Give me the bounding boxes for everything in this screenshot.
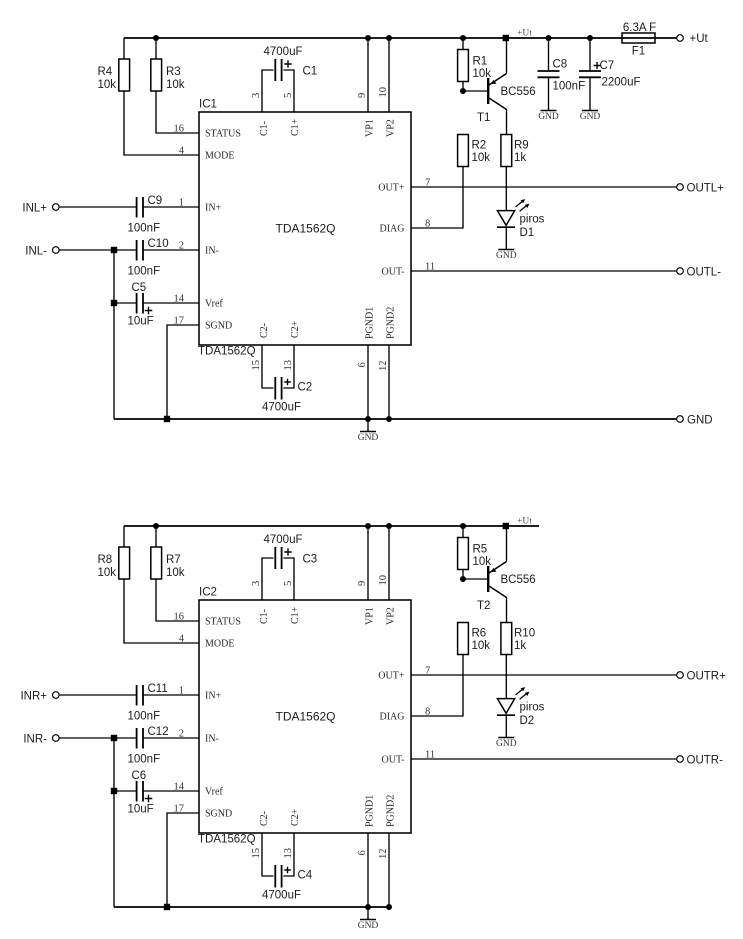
- svg-text:C4: C4: [298, 870, 313, 882]
- junction input/C5 branch: [111, 247, 117, 253]
- svg-text:10: 10: [378, 87, 389, 98]
- svg-text:MODE: MODE: [205, 638, 234, 649]
- svg-text:13: 13: [283, 360, 294, 371]
- svg-text:C10: C10: [148, 238, 169, 250]
- wire PGND1 pin 6 to ground rail: [367, 833, 369, 907]
- pin names IC1 top: [259, 121, 270, 136]
- junction rail/C8: [546, 35, 552, 41]
- terminal OUTR+: [411, 674, 677, 676]
- svg-text:17: 17: [174, 316, 185, 327]
- svg-text:C1-: C1-: [259, 121, 270, 136]
- wire collector of T2: [489, 586, 507, 598]
- svg-text:10k: 10k: [472, 152, 491, 164]
- op-amp IC IC1 TDA1562Q box: [199, 112, 411, 345]
- wire INL+ to C9: [59, 206, 136, 208]
- svg-text:C7: C7: [600, 60, 615, 72]
- svg-text:100nF: 100nF: [128, 754, 161, 766]
- junction PGND1/rail: [365, 904, 371, 910]
- wire ground rail left channel: [114, 418, 677, 420]
- svg-text:10k: 10k: [166, 567, 185, 579]
- svg-text:4700uF: 4700uF: [262, 402, 301, 414]
- svg-text:+Ut: +Ut: [517, 29, 532, 39]
- svg-text:STATUS: STATUS: [205, 616, 241, 627]
- svg-text:PGND1: PGND1: [365, 307, 376, 339]
- wire R8 to MODE pin 4: [124, 579, 199, 643]
- svg-text:15: 15: [251, 848, 262, 859]
- junction PGND1/rail: [365, 416, 371, 422]
- pin names IC2 top: [259, 609, 270, 624]
- pin numbers IC1 top: [251, 93, 262, 98]
- svg-text:100nF: 100nF: [553, 81, 586, 93]
- svg-text:PGND2: PGND2: [386, 307, 397, 339]
- svg-text:8: 8: [425, 707, 430, 718]
- pin numbers IC1 bottom: [251, 360, 262, 371]
- wire emitter of T2 to rail: [506, 526, 508, 562]
- svg-text:GND: GND: [358, 921, 379, 931]
- svg-text:10k: 10k: [98, 567, 117, 579]
- wire VP1 pin 9 to rail: [367, 526, 369, 600]
- ground: [367, 419, 369, 431]
- svg-text:Vref: Vref: [205, 298, 223, 309]
- svg-text:piros: piros: [520, 214, 545, 226]
- terminal +Ut: [677, 35, 684, 42]
- wire R10 to LED D2: [505, 655, 507, 699]
- svg-text:10uF: 10uF: [128, 316, 154, 328]
- svg-text:1k: 1k: [514, 152, 526, 164]
- resistor R1: [462, 38, 464, 50]
- svg-text:IN-: IN-: [205, 245, 219, 256]
- terminal INR+: [53, 692, 60, 699]
- svg-text:F1: F1: [632, 46, 645, 58]
- capacitor C3 4700uF pump: [262, 558, 274, 600]
- svg-text:GND: GND: [687, 415, 713, 427]
- svg-text:+Ut: +Ut: [690, 33, 709, 45]
- svg-text:C6: C6: [132, 770, 147, 782]
- wire SGND pin 17 to ground rail: [167, 813, 199, 907]
- resistor R8: [119, 547, 130, 579]
- svg-text:INR-: INR-: [23, 734, 47, 746]
- junction rail/C7: [587, 35, 593, 41]
- svg-text:Vref: Vref: [205, 786, 223, 797]
- svg-text:OUTR+: OUTR+: [687, 671, 727, 683]
- svg-text:10k: 10k: [166, 79, 185, 91]
- svg-text:4700uF: 4700uF: [263, 46, 302, 58]
- junction C5 tap: [111, 300, 117, 306]
- svg-text:TDA1562Q: TDA1562Q: [198, 346, 256, 358]
- svg-text:4700uF: 4700uF: [262, 890, 301, 902]
- svg-text:OUTL-: OUTL-: [687, 267, 722, 279]
- svg-text:14: 14: [174, 294, 185, 305]
- junction rail/VP1: [365, 35, 371, 41]
- svg-text:R6: R6: [472, 628, 487, 640]
- wire PGND1 pin 6 to ground rail: [367, 345, 369, 419]
- wire VP2 pin 10 to rail: [388, 38, 390, 112]
- junction rail/emitter T1: [503, 35, 509, 41]
- capacitor C10 100nF: [136, 240, 138, 261]
- terminal GND: [677, 416, 684, 423]
- wire ground rail right channel: [114, 906, 389, 908]
- svg-text:2200uF: 2200uF: [602, 77, 641, 89]
- svg-text:C1+: C1+: [290, 606, 301, 624]
- svg-text:5: 5: [283, 93, 294, 98]
- svg-text:10uF: 10uF: [128, 804, 154, 816]
- wire C10 to IN- pin 2: [143, 249, 199, 251]
- wire C5 to Vref pin 14: [143, 302, 199, 304]
- wire collector of T1: [489, 98, 507, 110]
- svg-text:4700uF: 4700uF: [263, 534, 302, 546]
- svg-text:5: 5: [283, 581, 294, 586]
- wire base node to T1: [463, 90, 487, 92]
- junction input/C6 branch: [111, 735, 117, 741]
- svg-text:GND: GND: [496, 251, 517, 261]
- svg-text:R4: R4: [98, 66, 113, 78]
- ground: [589, 98, 591, 110]
- capacitor C1 4700uF pump: [262, 70, 274, 112]
- svg-text:VP2: VP2: [386, 607, 397, 625]
- svg-text:C1: C1: [303, 66, 318, 78]
- svg-text:TDA1562Q: TDA1562Q: [275, 710, 335, 724]
- capacitor C4 4700uF pump: [262, 833, 274, 876]
- junction C6 tap: [111, 788, 117, 794]
- ground: [505, 237, 507, 249]
- transistor T1 BC556 PNP: [487, 78, 489, 104]
- wire rail to R3: [155, 38, 157, 59]
- svg-text:PGND2: PGND2: [386, 795, 397, 827]
- svg-text:C8: C8: [553, 59, 568, 71]
- svg-text:GND: GND: [538, 112, 559, 122]
- svg-text:1: 1: [179, 198, 184, 209]
- junction PGND2/rail: [386, 904, 392, 910]
- resistor R6: [458, 623, 469, 655]
- resistor R5: [462, 526, 464, 538]
- svg-text:3: 3: [251, 581, 262, 586]
- capacitor C7 2200uF: [589, 38, 591, 71]
- wire R4 to MODE pin 4: [124, 91, 199, 155]
- svg-text:VP1: VP1: [365, 119, 376, 137]
- wire rail corner down to R8: [123, 526, 125, 547]
- svg-text:C2-: C2-: [259, 323, 270, 338]
- resistor R4: [119, 59, 130, 91]
- svg-text:C2+: C2+: [290, 320, 301, 338]
- svg-text:2: 2: [179, 241, 184, 252]
- resistor R9: [501, 135, 512, 167]
- node base of T2: [460, 576, 466, 582]
- ground: [505, 725, 507, 737]
- capacitor C5 10uF: [114, 302, 136, 304]
- wire emitter of T1 to rail: [506, 38, 508, 74]
- wire +Ut rail right channel: [124, 525, 539, 527]
- junction SGND/ground rail: [164, 904, 170, 910]
- svg-text:9: 9: [357, 581, 368, 586]
- svg-text:OUT+: OUT+: [378, 670, 405, 681]
- svg-text:INR+: INR+: [20, 691, 47, 703]
- svg-text:17: 17: [174, 804, 185, 815]
- wire LED D2 cathode to ground: [505, 715, 507, 725]
- resistor R3: [151, 59, 162, 91]
- svg-text:6: 6: [357, 362, 368, 367]
- pin numbers IC2 top: [251, 581, 262, 586]
- LED arrows of D2: [516, 690, 527, 700]
- svg-text:BC556: BC556: [501, 574, 536, 586]
- svg-text:9: 9: [357, 93, 368, 98]
- wire base node to T2: [463, 578, 487, 580]
- svg-text:16: 16: [174, 124, 185, 135]
- junction rail/R1: [460, 35, 466, 41]
- svg-text:4: 4: [179, 634, 185, 645]
- wire LED D1 cathode to ground: [505, 227, 507, 237]
- node base of T1: [460, 88, 466, 94]
- svg-text:D1: D1: [520, 227, 535, 239]
- junction rail/R5: [460, 523, 466, 529]
- svg-text:C1+: C1+: [290, 118, 301, 136]
- svg-text:DIAG: DIAG: [380, 223, 405, 234]
- junction rail/VP2: [386, 523, 392, 529]
- svg-text:15: 15: [251, 360, 262, 371]
- svg-text:INL+: INL+: [22, 203, 47, 215]
- svg-text:DIAG: DIAG: [380, 711, 405, 722]
- wire C11 to IN+ pin 1: [143, 694, 199, 696]
- svg-text:13: 13: [283, 848, 294, 859]
- wire rail corner down to R4: [123, 38, 125, 59]
- pin numbers IC2 bottom: [251, 848, 262, 859]
- svg-text:16: 16: [174, 612, 185, 623]
- svg-text:R3: R3: [166, 66, 181, 78]
- op-amp IC IC2 TDA1562Q box: [199, 600, 411, 833]
- wire R1 to base node: [462, 82, 464, 92]
- wire C6 to Vref pin 14: [143, 790, 199, 792]
- svg-text:C12: C12: [148, 726, 169, 738]
- svg-text:100nF: 100nF: [128, 266, 161, 278]
- svg-text:1: 1: [179, 686, 184, 697]
- svg-text:INL-: INL-: [25, 246, 47, 258]
- svg-text:C9: C9: [148, 195, 163, 207]
- svg-text:OUTR-: OUTR-: [687, 755, 724, 767]
- junction rail/R3: [153, 35, 159, 41]
- svg-text:6: 6: [357, 850, 368, 855]
- svg-text:piros: piros: [520, 702, 545, 714]
- svg-text:T1: T1: [477, 112, 490, 124]
- svg-text:OUT+: OUT+: [378, 182, 405, 193]
- junction rail/VP1: [365, 523, 371, 529]
- svg-text:R8: R8: [98, 554, 113, 566]
- svg-text:R5: R5: [473, 544, 488, 556]
- capacitor C9 100nF: [136, 197, 138, 218]
- transistor T2 BC556 PNP: [487, 566, 489, 592]
- svg-text:10k: 10k: [472, 640, 491, 652]
- wire R7 to STATUS pin 16: [156, 579, 199, 621]
- pin names IC1 bottom: [259, 323, 270, 338]
- svg-text:OUT-: OUT-: [382, 754, 405, 765]
- wire VP2 pin 10 to rail: [388, 526, 390, 600]
- svg-text:IN+: IN+: [205, 202, 222, 213]
- svg-text:C3: C3: [303, 554, 318, 566]
- terminal OUTR-: [411, 758, 677, 760]
- resistor R7: [151, 547, 162, 579]
- junction SGND/ground rail: [164, 416, 170, 422]
- LED D2 piros: [497, 699, 514, 714]
- svg-text:IC1: IC1: [199, 99, 217, 111]
- svg-text:GND: GND: [358, 433, 379, 443]
- svg-text:TDA1562Q: TDA1562Q: [198, 834, 256, 846]
- svg-text:GND: GND: [580, 112, 601, 122]
- wire +Ut rail left channel: [124, 37, 622, 39]
- svg-text:R1: R1: [473, 56, 488, 68]
- svg-text:+Ut: +Ut: [517, 517, 532, 527]
- svg-text:C11: C11: [148, 683, 168, 695]
- emitter arrow of T1: [490, 80, 496, 84]
- wire C9 to IN+ pin 1: [143, 206, 199, 208]
- svg-text:IN-: IN-: [205, 733, 219, 744]
- svg-text:10: 10: [378, 575, 389, 586]
- wire through fuse: [622, 37, 655, 39]
- svg-text:STATUS: STATUS: [205, 128, 241, 139]
- svg-text:VP1: VP1: [365, 607, 376, 625]
- svg-text:VP2: VP2: [386, 119, 397, 137]
- svg-text:C2-: C2-: [259, 811, 270, 826]
- capacitor C8 100nF: [548, 38, 550, 71]
- wire INR+ to C11: [59, 694, 136, 696]
- junction rail/R7: [153, 523, 159, 529]
- wire PGND2 pin 12 to ground rail: [388, 833, 390, 907]
- svg-text:IN+: IN+: [205, 690, 222, 701]
- wire R5 to base node: [462, 570, 464, 580]
- svg-text:PGND1: PGND1: [365, 795, 376, 827]
- wire branch down to ground rail: [113, 738, 115, 907]
- wire PGND2 pin 12 to ground rail: [388, 345, 390, 419]
- ground: [367, 907, 369, 919]
- wire R6 to DIAG pin 8: [411, 655, 463, 717]
- svg-text:D2: D2: [520, 715, 535, 727]
- svg-text:R2: R2: [472, 140, 487, 152]
- wire INL- to C10: [59, 249, 136, 251]
- resistor R2: [458, 135, 469, 167]
- svg-text:SGND: SGND: [205, 320, 232, 331]
- terminal INR-: [53, 735, 60, 742]
- svg-text:C2: C2: [298, 382, 313, 394]
- capacitor C11 100nF: [136, 685, 138, 706]
- svg-text:3: 3: [251, 93, 262, 98]
- wire rail to R7: [155, 526, 157, 547]
- svg-text:8: 8: [425, 219, 430, 230]
- svg-text:MODE: MODE: [205, 150, 234, 161]
- svg-text:C1-: C1-: [259, 609, 270, 624]
- capacitor C12 100nF: [136, 728, 138, 749]
- capacitor C2 4700uF pump: [262, 345, 274, 388]
- svg-text:12: 12: [378, 361, 389, 372]
- svg-text:10k: 10k: [98, 79, 117, 91]
- svg-text:OUT-: OUT-: [382, 266, 405, 277]
- svg-text:SGND: SGND: [205, 808, 232, 819]
- svg-text:BC556: BC556: [501, 86, 536, 98]
- junction rail/emitter T2: [503, 523, 509, 529]
- svg-text:14: 14: [174, 782, 185, 793]
- terminal INL-: [53, 247, 60, 254]
- terminal OUTL-: [411, 270, 677, 272]
- wire C12 to IN- pin 2: [143, 737, 199, 739]
- svg-text:R10: R10: [514, 628, 535, 640]
- svg-text:4: 4: [179, 146, 185, 157]
- capacitor C6 10uF: [114, 790, 136, 792]
- svg-text:R9: R9: [514, 140, 529, 152]
- fuse F1 6.3A: [622, 33, 655, 43]
- svg-text:C2+: C2+: [290, 808, 301, 826]
- svg-text:IC2: IC2: [199, 587, 217, 599]
- wire branch down to ground rail: [113, 250, 115, 419]
- emitter arrow of T2: [490, 568, 496, 572]
- svg-text:1k: 1k: [514, 640, 526, 652]
- svg-text:12: 12: [378, 849, 389, 860]
- pin names IC2 bottom: [259, 811, 270, 826]
- wire R9 to LED D1: [505, 167, 507, 211]
- svg-text:R7: R7: [166, 554, 181, 566]
- wire VP1 pin 9 to rail: [367, 38, 369, 112]
- terminal OUTL+: [411, 186, 677, 188]
- svg-text:100nF: 100nF: [128, 223, 161, 235]
- svg-text:6.3A F: 6.3A F: [623, 22, 656, 34]
- wire R2 to DIAG pin 8: [411, 167, 463, 229]
- terminal INL+: [53, 204, 60, 211]
- LED arrows of D1: [516, 202, 527, 212]
- wire SGND pin 17 to ground rail: [167, 325, 199, 419]
- svg-text:C5: C5: [132, 282, 147, 294]
- junction rail/VP2: [386, 35, 392, 41]
- ground: [548, 98, 550, 110]
- wire R3 to STATUS pin 16: [156, 91, 199, 133]
- svg-text:GND: GND: [496, 739, 517, 749]
- svg-text:TDA1562Q: TDA1562Q: [275, 222, 335, 236]
- LED D1 piros: [497, 211, 514, 226]
- resistor R10: [501, 623, 512, 655]
- wire INR- to C12: [59, 737, 136, 739]
- svg-text:2: 2: [179, 729, 184, 740]
- junction PGND2/rail: [386, 416, 392, 422]
- svg-text:OUTL+: OUTL+: [687, 183, 725, 195]
- svg-text:T2: T2: [477, 600, 490, 612]
- svg-text:100nF: 100nF: [128, 711, 161, 723]
